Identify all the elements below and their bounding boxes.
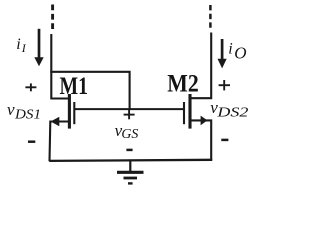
svg-text:DS2: DS2	[216, 105, 248, 120]
svg-text:v: v	[7, 100, 15, 119]
svg-text:O: O	[234, 43, 246, 62]
svg-text:DS1: DS1	[14, 108, 41, 123]
svg-text:I: I	[21, 41, 27, 55]
svg-text:i: i	[228, 41, 232, 58]
svg-text:M1: M1	[60, 73, 89, 100]
svg-text:GS: GS	[121, 126, 138, 141]
svg-text:i: i	[16, 36, 20, 53]
svg-text:M2: M2	[167, 70, 199, 97]
